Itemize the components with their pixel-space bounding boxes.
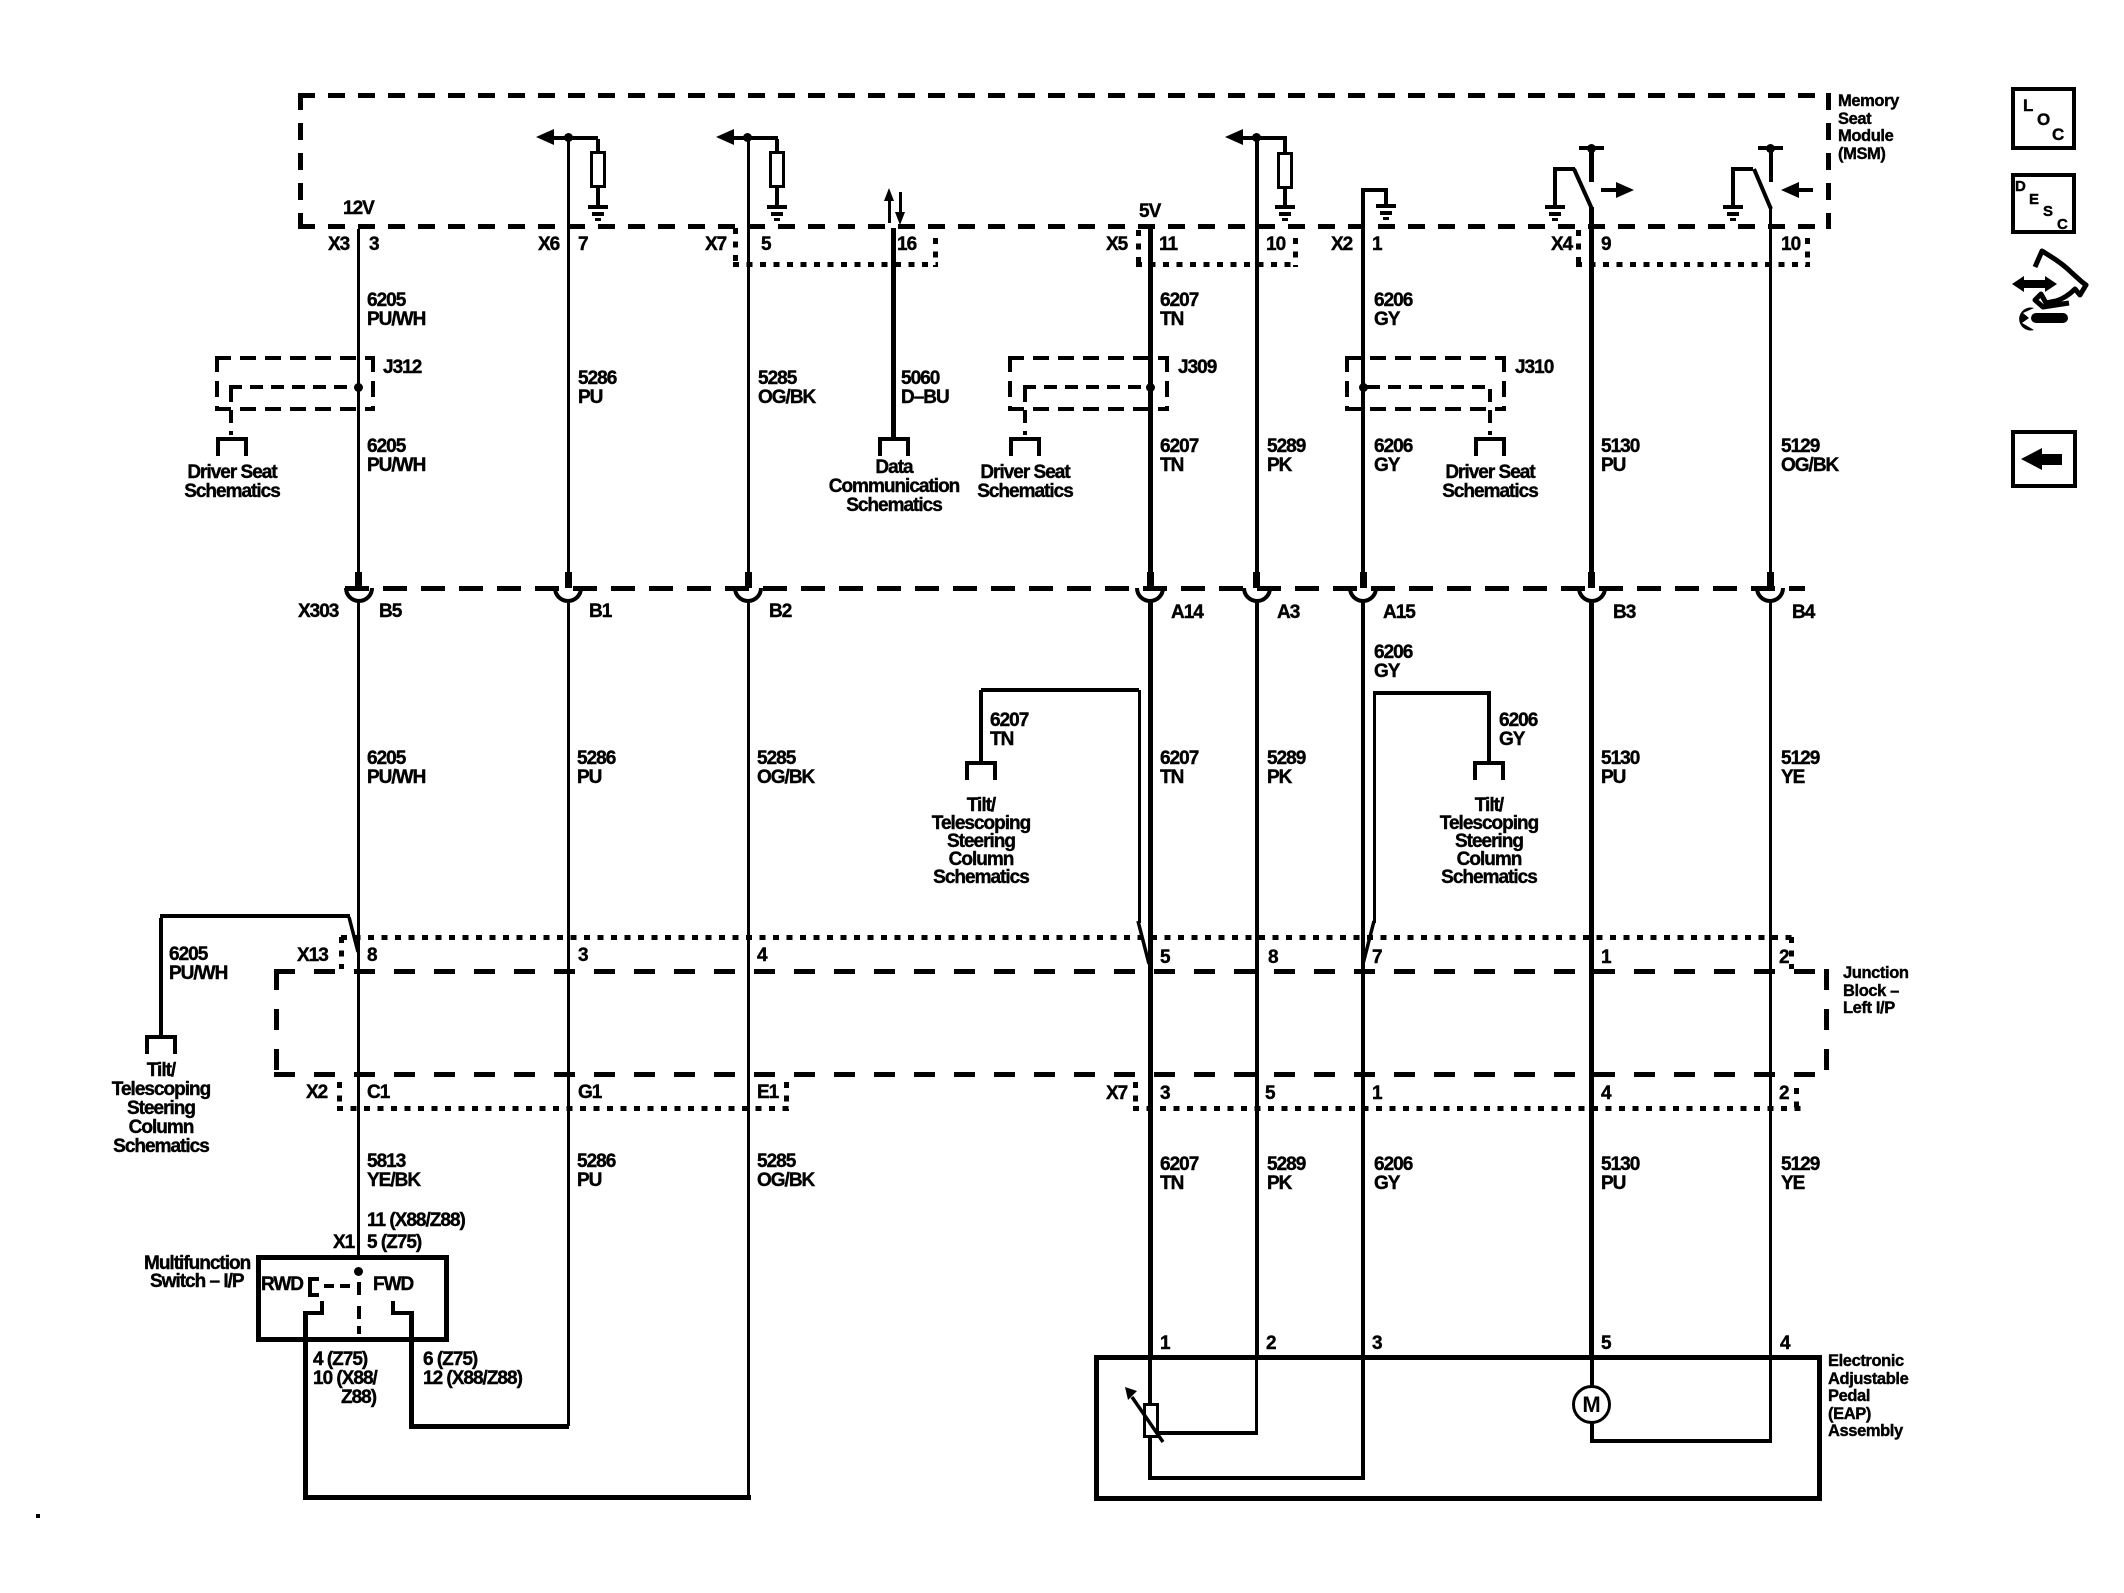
motor M (pedal adjust) — [1572, 1385, 1611, 1424]
wire 5289 PK (X5-10 to X303-A3) — [1255, 140, 1259, 572]
wire branch 6207 vertical drop — [979, 690, 983, 763]
potentiometer adjust arrow — [1118, 1385, 1170, 1447]
wire 6205 continues to X303 — [357, 439, 360, 572]
icon box DESC — [2011, 173, 2076, 234]
connector X4 dotted outline bottom — [1576, 262, 1810, 267]
junction node X4-9 supply — [1587, 144, 1596, 153]
connector X303 terminal A3 — [1253, 572, 1260, 588]
label EAP Assembly — [1828, 1353, 1908, 1441]
connector X5 dotted outline tick — [1136, 230, 1141, 264]
label wire 6205 PU/WH — [367, 291, 425, 329]
wire horizontal to resistor R (X6-7) — [550, 136, 598, 140]
wire 5130 (X303-B3 to EAP pin 5) — [1589, 601, 1594, 1357]
pin 8b (X13) — [1268, 948, 1278, 967]
label splice J312 — [383, 358, 421, 377]
label wire 6205 PU/WH (below B5) — [367, 749, 425, 787]
label wire 5130 PU — [1601, 437, 1639, 475]
resistor (X6-7) — [590, 151, 606, 188]
wire 5289 (X303-A3 to EAP pin 2) — [1255, 601, 1259, 1357]
connector label X3 — [328, 235, 349, 254]
page corner mark — [36, 1514, 40, 1518]
connector X7jb left tick — [1133, 1082, 1138, 1109]
label Multifunction Switch line1 — [144, 1254, 250, 1273]
wire 5289 continues to X303 — [1255, 430, 1259, 572]
label wire branch 6207 TN — [990, 711, 1028, 749]
wire EAP pin3 drop — [1361, 1357, 1365, 1480]
label wire 5060 D-BU — [901, 369, 949, 407]
switch RWD terminal — [320, 1301, 324, 1313]
connector label X303 — [298, 602, 338, 621]
resistor upper lead — [775, 139, 779, 151]
connector X2 right tick — [784, 1082, 789, 1111]
switch fixed contact lead (X4-10) — [1769, 150, 1773, 182]
ground (X7-5 resistor) — [767, 205, 787, 209]
arrow (MSM output X5-10) — [1225, 129, 1243, 145]
pin 4 (X7) — [1601, 1084, 1611, 1103]
pin 11 — [1159, 235, 1177, 254]
junction splice J309 — [1146, 383, 1155, 392]
wire 5286 (X303-B1 to junction block G1) — [567, 601, 570, 1109]
switch fixed contact lead (X4-9) — [1589, 150, 1594, 182]
off-page reference (J310 to driver seat) — [1474, 437, 1506, 441]
label Tilt/Telescoping (6206) — [1440, 797, 1538, 887]
connector label X4 — [1551, 235, 1572, 254]
wire EAP pin4 drop — [1769, 1357, 1772, 1443]
wire 5285 continues to X303 — [747, 430, 750, 572]
wire 6207 TN (X5-11 to X303-A14) — [1148, 229, 1153, 572]
connector X7 dotted outline right tick — [933, 238, 938, 267]
label wire branch 6206 GY — [1499, 711, 1537, 749]
ground lead (X2-1) — [1384, 192, 1388, 204]
icon adjustable pedal (car sketch with arrow and wrench) — [2002, 247, 2094, 335]
label wire 5813 YE/BK — [367, 1152, 420, 1190]
label pin 10 line2 — [341, 1388, 376, 1407]
Multifunction Switch - I/P box — [256, 1255, 449, 1342]
switch pivot arm vertical (X4-10) — [1731, 169, 1735, 205]
wire branch 6207 parallel run — [1138, 690, 1141, 923]
connector X303 terminal B1 — [565, 572, 572, 588]
label wire 5289 PK — [1267, 437, 1305, 475]
label pin 4 (Z75) — [313, 1350, 367, 1369]
connector X2 dotted line — [337, 1106, 789, 1111]
pin 3 (EAP) — [1372, 1334, 1382, 1353]
junction node X6-7 — [564, 133, 573, 142]
Electronic Adjustable Pedal (EAP) Assembly box — [1094, 1355, 1822, 1501]
pin 9 — [1601, 235, 1611, 254]
connector X303 terminal B5 — [355, 572, 362, 588]
label wire branch 6205 PU/WH — [169, 945, 227, 983]
pin B1 — [589, 602, 611, 621]
label wire 5130 PU (below X7-4) — [1601, 1155, 1639, 1193]
connector X303 terminal B2 — [745, 572, 752, 588]
splice J312 dashed box — [215, 356, 375, 360]
connector X7 dotted outline tick — [733, 228, 738, 264]
label wire 6207 TN — [1160, 291, 1198, 329]
label 5V supply — [1139, 202, 1160, 221]
pin 5 (X7) — [1265, 1084, 1275, 1103]
wire 5286 continues to X303 — [567, 430, 570, 572]
switch linkage dashes — [324, 1284, 334, 1288]
wire horizontal to resistor (X5-10) — [1240, 136, 1287, 140]
pin B3 — [1613, 603, 1635, 622]
label wire 5285 OG/BK — [758, 369, 815, 407]
pin B2 — [769, 602, 791, 621]
icon box LOC — [2011, 87, 2076, 150]
resistor (X5-10) — [1277, 152, 1293, 189]
label wire 6206 GY (below X7-1) — [1374, 1155, 1412, 1193]
label wire 5286 PU (below G1) — [577, 1152, 615, 1190]
label pin 11 (X88/Z88) — [367, 1211, 465, 1230]
connector X5 dotted outline right tick — [1293, 238, 1298, 267]
label Driver Seat Schematics (mid) — [977, 463, 1073, 501]
wire 6206 (X303-A15 to EAP pin 3) — [1361, 601, 1365, 1357]
connector X13 right tick — [1789, 937, 1794, 969]
label pin 6 (Z75) — [423, 1350, 477, 1369]
off-page reference (J309 to driver seat) — [1009, 437, 1041, 441]
switch pivot arm vertical (X4-9) — [1553, 169, 1557, 205]
serial data down-arrow — [899, 192, 902, 214]
connector label X6 — [538, 235, 559, 254]
connector label X2 (junction block) — [306, 1083, 327, 1102]
ground (X4-9 switch) — [1545, 205, 1565, 209]
connector X303 terminal B4 — [1767, 572, 1774, 588]
label wire 6206 GY (below A15) — [1374, 643, 1412, 681]
label wire 5129 YE (below B4) — [1781, 749, 1819, 787]
ground (X4-10 switch) — [1723, 205, 1743, 209]
label Junction Block - Left I/P — [1843, 965, 1909, 1018]
pin G1 — [578, 1083, 601, 1102]
pin 5 — [761, 235, 771, 254]
wire motor to pin 4 — [1590, 1439, 1772, 1443]
off-page reference (6205 to steering column) — [145, 1035, 177, 1039]
connector X5 dotted outline bottom — [1136, 262, 1298, 267]
label Tilt/Telescoping (6205) — [112, 1061, 210, 1156]
Junction Block - Left I/P dashed box — [274, 969, 1829, 974]
wire 5285 (E1 to RWD contact corner) — [747, 1109, 750, 1500]
pin 7 — [578, 235, 588, 254]
label wire 5129 YE (below X7-2) — [1781, 1155, 1819, 1193]
dashed branch from splice J309 — [1023, 385, 1148, 389]
ground (X2-1) — [1376, 204, 1396, 208]
label Data Communication Schematics — [829, 458, 960, 515]
label wire 5130 PU (below B3) — [1601, 749, 1639, 787]
wire EAP pin5 to motor — [1590, 1357, 1594, 1387]
pin A14 — [1171, 603, 1203, 622]
Memory Seat Module (MSM) dashed box — [298, 93, 1831, 98]
wire 6205 (X303-B5 to multifunction switch) — [357, 601, 360, 1255]
icon box back-arrow — [2011, 430, 2077, 488]
splice J309 dashed box — [1008, 356, 1169, 360]
junction node X1 common — [354, 1267, 363, 1276]
pin 16 — [897, 235, 916, 254]
junction node X5-10 — [1252, 133, 1261, 142]
junction node X7-5 — [743, 133, 752, 142]
pin 2 (X7) — [1779, 1084, 1789, 1103]
pin 5 (X13) — [1160, 948, 1170, 967]
label wire 6207 TN (below X7-3) — [1160, 1155, 1198, 1193]
wire 5285 OG/BK (X7-5 to X303-B2) — [747, 140, 750, 572]
label wire 5285 OG/BK (below E1) — [757, 1152, 814, 1190]
wire FWD contact drop — [409, 1311, 414, 1429]
connector X13 dotted line — [341, 935, 1794, 940]
pin 2 (X13) — [1779, 948, 1789, 967]
label pin 12 (X88/Z88) — [423, 1369, 522, 1388]
wire FWD horizontal run — [409, 1424, 569, 1429]
wire 6207 continues to X303 — [1148, 430, 1153, 572]
off-page reference (6207 to steering column) — [965, 761, 997, 765]
pin 3 (X13) — [578, 946, 588, 965]
arrow actuate right (X4-9) — [1616, 182, 1634, 198]
pin 7 (X13) — [1372, 948, 1382, 967]
connector X7 dotted outline bottom — [733, 262, 938, 267]
pin B5 — [379, 602, 401, 621]
potentiometer (pedal position sensor) body — [1143, 1403, 1159, 1438]
switch RWD contact bracket — [308, 1277, 312, 1297]
wire branch 6206 horizontal — [1374, 691, 1491, 695]
connector X7jb right tick — [1794, 1088, 1799, 1111]
connector X13 left tick — [339, 937, 344, 969]
connector X303 dashed line — [345, 586, 1805, 591]
resistor lower lead — [1283, 189, 1287, 205]
pin B4 — [1792, 603, 1814, 622]
switch pivot arm horizontal (X4-10) — [1731, 167, 1753, 171]
label Tilt/Telescoping (6207) — [932, 797, 1030, 887]
wire branch 6207 horizontal — [981, 688, 1139, 692]
pin 10 — [1266, 235, 1285, 254]
resistor upper lead — [1283, 139, 1287, 152]
pin 1 (X7) — [1372, 1084, 1382, 1103]
off-page reference (5060 to data communication) — [878, 437, 910, 441]
wire 5060 D-BU (pin 16 to data comm) — [891, 228, 896, 439]
label wire 5285 OG/BK (below B2) — [757, 749, 814, 787]
connector X2 left tick — [337, 1082, 342, 1109]
wire 5285 (X303-B2 to junction block E1) — [747, 601, 750, 1109]
arrow actuate left (X4-10) — [1781, 182, 1799, 198]
connector label X13 — [297, 946, 328, 965]
wire branch 6205 vertical drop — [159, 918, 163, 1035]
wire RWD horizontal run — [303, 1495, 751, 1500]
wire branch 6205 horizontal — [160, 914, 350, 918]
label wire 5286 PU (below B1) — [577, 749, 615, 787]
resistor (X6-7 pull-up) lead — [596, 139, 600, 151]
switch FWD terminal — [391, 1301, 395, 1313]
label wire 6206 GY — [1374, 291, 1412, 329]
label splice J310 — [1515, 358, 1553, 377]
ground (X5-10 resistor) — [1275, 205, 1295, 209]
connector label X1 — [333, 1233, 354, 1252]
switch blade (X4-10) — [1749, 165, 1777, 213]
connector X303 terminal B3 — [1588, 572, 1595, 588]
junction splice J312 — [354, 383, 363, 392]
label wire 5289 PK (below X7-5) — [1267, 1155, 1305, 1193]
pin 5 (EAP) — [1601, 1334, 1611, 1353]
wire branch 6206 parallel run — [1373, 691, 1376, 923]
wire sensor low side to pin 3 — [1148, 1476, 1365, 1480]
pin 4 (EAP) — [1780, 1334, 1790, 1353]
label wire 5289 PK (below A3) — [1267, 749, 1305, 787]
dashed branch from splice J312 — [229, 385, 356, 389]
wire sensor wiper to pin 2 — [1159, 1431, 1257, 1435]
wire 6207 (X303-A14 to EAP pin 1) — [1148, 601, 1153, 1357]
label Driver Seat Schematics (left) — [184, 463, 280, 501]
connector X7jb dotted line — [1133, 1106, 1802, 1111]
switch fixed contact bar (X4-10) — [1758, 146, 1783, 150]
dashed branch from splice J310 — [1367, 385, 1492, 389]
pin 1 (EAP) — [1160, 1334, 1170, 1353]
label splice J309 — [1178, 358, 1216, 377]
wire branch 6206 diagonal merge — [1358, 918, 1378, 968]
splice J310 dashed box — [1345, 356, 1506, 360]
resistor lower lead — [596, 188, 600, 205]
label wire 6205 PU/WH (below J312) — [367, 437, 425, 475]
connector label X2 — [1331, 235, 1352, 254]
label Memory Seat Module (MSM) — [1838, 93, 1899, 163]
wire 5129 (X303-B4 to EAP pin 4) — [1769, 601, 1772, 1357]
label RWD — [261, 1275, 303, 1294]
arrow (MSM output X7-5) — [716, 129, 734, 145]
off-page reference (6206 to steering column) — [1473, 761, 1505, 765]
pin 1 (X13) — [1601, 948, 1611, 967]
pin 3 (X7) — [1160, 1084, 1170, 1103]
label wire 6207 TN (below A14) — [1160, 749, 1198, 787]
wire EAP pin1 to position sensor — [1148, 1357, 1152, 1405]
label wire 6207 TN (below J309) — [1160, 437, 1198, 475]
junction splice J310 — [1359, 383, 1368, 392]
wire RWD contact drop — [303, 1311, 308, 1500]
off-page reference (J312 to driver seat) — [216, 437, 248, 441]
label wire 5129 OG/BK — [1781, 437, 1838, 475]
wire 5286 (G1 to FWD contact corner) — [567, 1109, 570, 1426]
resistor lower lead — [775, 188, 779, 205]
connector X303 terminal A15 — [1360, 572, 1367, 588]
ground (X6-7 resistor) — [588, 205, 608, 209]
label 12V supply — [343, 199, 374, 218]
label wire 6206 GY (below J310) — [1374, 437, 1412, 475]
label pin 5 (Z75) — [367, 1233, 421, 1252]
switch fixed contact bar (X4-9) — [1579, 146, 1604, 150]
wire 6205 PU/WH (X3-3 to X303-B5) — [357, 229, 360, 572]
pin A3 — [1277, 603, 1299, 622]
pin C1 — [367, 1083, 389, 1102]
wire horizontal to resistor (X7-5) — [730, 136, 778, 140]
pin 1 — [1372, 235, 1382, 254]
wire 5129 OG/BK (X4-10 to X303-B4) — [1769, 207, 1772, 572]
pin 4 (X13) — [757, 946, 767, 965]
wire branch 6205 diagonal merge — [345, 914, 363, 956]
serial data up-arrow — [888, 200, 891, 223]
pin 3 — [369, 235, 379, 254]
arrow shaft (X4-10) — [1797, 188, 1813, 192]
connector label X5 — [1106, 235, 1127, 254]
label wire 5286 PU — [578, 369, 616, 407]
wire 6206 GY (X2-1 to X303-A15) — [1361, 192, 1365, 572]
wire 5129 continues to X303 — [1769, 430, 1772, 572]
pin E1 — [757, 1083, 778, 1102]
wire 5130 PU (X4-9 to X303-B3) — [1589, 207, 1594, 572]
pin 8 (X13) — [367, 946, 377, 965]
arrow shaft (X4-9) — [1601, 188, 1617, 192]
pin 2 (EAP) — [1266, 1334, 1276, 1353]
wire motor low side — [1590, 1422, 1594, 1443]
label Driver Seat Schematics (right) — [1442, 463, 1538, 501]
junction node X4-10 supply — [1766, 144, 1775, 153]
wire position sensor lower leg — [1148, 1438, 1152, 1480]
wire EAP pin2 drop — [1255, 1357, 1258, 1435]
switch blade (X4-9) — [1569, 165, 1597, 213]
switch pivot arm horizontal (X4-9) — [1553, 167, 1575, 171]
label FWD — [373, 1275, 413, 1294]
pin 10 — [1781, 235, 1800, 254]
connector X4 dotted outline right tick — [1805, 238, 1810, 267]
arrow (MSM output X6-7) — [536, 129, 554, 145]
resistor (X7-5) — [769, 151, 785, 188]
wire branch 6206 vertical drop — [1487, 693, 1491, 763]
label Multifunction Switch line2 — [150, 1272, 244, 1291]
connector label X7 (junction block) — [1106, 1084, 1127, 1103]
connector X303 terminal A14 — [1147, 572, 1154, 588]
wire branch 6207 diagonal merge — [1134, 918, 1154, 968]
label pin 10 line1 — [313, 1369, 377, 1388]
pin A15 — [1383, 603, 1415, 622]
connector X4 dotted outline tick — [1576, 230, 1581, 264]
wire 6206 continues to X303 — [1361, 430, 1365, 572]
wire 5286 PU (X6-7 to X303-B1) — [567, 140, 570, 572]
wire 5130 continues to X303 — [1589, 430, 1594, 572]
switch common linkage dashed vertical — [357, 1282, 361, 1295]
wire jog to ground (X2-1) — [1361, 188, 1388, 192]
connector label X7 — [705, 235, 726, 254]
